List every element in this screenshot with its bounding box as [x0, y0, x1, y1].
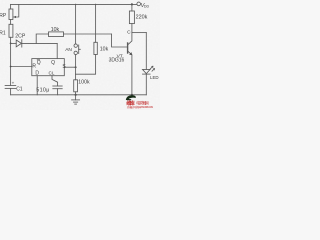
wire 220k bottom to collector tee — [131, 24, 133, 33]
wire diode cathode to Q riser — [22, 42, 57, 44]
wire 100k riser — [75, 74, 77, 80]
IC flip-flop box — [32, 59, 65, 76]
resistor 100k — [74, 80, 78, 92]
capacitor 510u — [53, 85, 62, 87]
resistor 10k vertical — [94, 42, 97, 54]
wire Q riser into IC top — [56, 43, 58, 58]
node AN rail tee — [75, 4, 76, 5]
RP wiper arrowhead — [13, 16, 16, 18]
pushbutton AN — [74, 44, 77, 47]
LED — [143, 69, 151, 73]
wire 10k line to base riser — [64, 33, 112, 35]
potentiometer RP — [9, 9, 13, 20]
LED arrows — [150, 66, 153, 69]
wire R1 down through taps to C1 — [10, 37, 12, 85]
wire 220k top lead — [131, 4, 133, 11]
transistor VT bar — [127, 43, 129, 53]
wire RP to R1 — [10, 20, 12, 25]
wire top rail — [11, 3, 137, 5]
transistor emitter — [128, 51, 132, 55]
wire bottom rail — [11, 94, 147, 96]
wire RP wiper riser — [14, 4, 19, 17]
node R tap — [10, 66, 12, 68]
node 10k rail tee — [95, 4, 96, 5]
wire S pin right — [64, 66, 75, 68]
wire 10k vert top to rail — [95, 4, 97, 42]
wire diode anode lead — [11, 42, 17, 44]
wire 100k to rail — [75, 92, 77, 95]
wire collector node to LED line — [132, 32, 146, 34]
wire tee up to 10k horizontal line — [36, 34, 48, 43]
wire lower horizontal to 10k vert — [76, 55, 96, 75]
resistor R1 — [9, 24, 13, 37]
node emitter rail — [131, 94, 133, 96]
wire R pin left — [11, 66, 32, 68]
capacitor C1 — [5, 85, 16, 87]
diode 2CP — [16, 40, 21, 47]
resistor 10k horizontal — [49, 32, 64, 37]
node AN junction — [75, 66, 77, 68]
node 220k rail junction — [131, 3, 133, 5]
wire AN bottom lead through junction — [75, 55, 77, 75]
wire emitter down — [131, 55, 133, 95]
wire left vertical top — [10, 4, 12, 9]
terminal VDD circle — [137, 2, 141, 6]
wire CL pin down to cap — [52, 76, 58, 86]
wire AN vertical from rail — [75, 4, 77, 44]
ground — [75, 95, 77, 100]
watermark logo — [126, 95, 153, 109]
wire LED riser — [145, 33, 147, 70]
wire base riser down and to base — [112, 34, 128, 47]
node ground junction — [75, 94, 77, 96]
resistor 220k — [129, 11, 134, 24]
node diode tap — [10, 43, 12, 45]
wire D pin down — [36, 76, 38, 95]
wire collector vertical and angle to bar — [128, 33, 132, 45]
